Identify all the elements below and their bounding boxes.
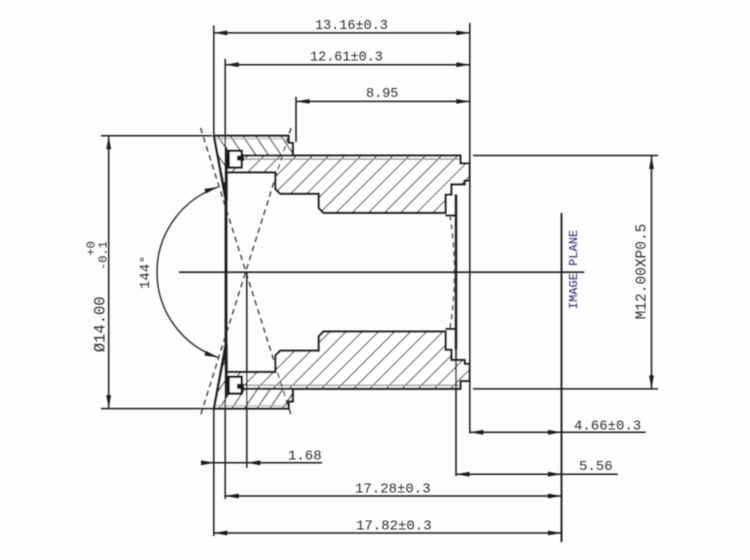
M12 thread root line lower [238,384,459,386]
image plane line [561,213,563,542]
thread relief notch lower [229,377,242,394]
svg-text:12.61±0.3: 12.61±0.3 [310,51,383,66]
lens barrel upper cross-section [227,156,470,213]
lock ring inner thin line lower [216,405,287,407]
svg-text:IMAGE PLANE: IMAGE PLANE [567,230,581,309]
extension line rear rim (top dims / 4.66) [469,23,471,164]
thread relief notch upper [229,151,242,168]
extension line dia14 top [101,135,212,137]
front element flat face [225,147,228,397]
extension line M12 bottom [473,388,658,390]
dim 1.68 [215,462,323,464]
front cone bevel upper [214,136,226,201]
lens barrel lower cross-section [227,332,470,389]
FOV ray ascending [201,128,291,415]
svg-text:144°: 144° [138,255,154,289]
svg-text:13.16±0.3: 13.16±0.3 [315,19,388,34]
svg-text:-0.1: -0.1 [97,241,111,270]
extension line entrance pupil (1.68) [246,272,248,468]
svg-text:Ø14.00: Ø14.00 [92,296,110,352]
dim 8.95 [296,100,470,102]
svg-text:8.95: 8.95 [366,87,398,102]
dim 4.66 [470,431,646,433]
extension line glass face (12.61 / 17.28) [224,59,226,147]
extension line M12 top [473,155,658,157]
dim 17.82 [214,532,562,534]
extension line rear element face (5.56) [455,350,457,477]
dim 13.16 [214,32,470,34]
rear element flat face [455,195,457,350]
label 144 deg [138,255,154,289]
lock ring inner thin line upper [216,138,287,140]
extension line ring face (8.95) [295,97,297,142]
extension line dia14 bottom [101,408,213,410]
dim 5.56 [456,473,618,475]
rear element curved surface (phantom) [450,216,455,329]
rear element bottom edge [446,328,457,330]
144 deg field-of-view arc [157,187,218,357]
svg-text:1.68: 1.68 [288,449,322,465]
svg-text:4.66±0.3: 4.66±0.3 [574,419,641,435]
svg-text:5.56: 5.56 [579,459,613,475]
front cone bevel lower [214,344,226,409]
svg-text:17.82±0.3: 17.82±0.3 [356,518,432,534]
dim M12.00XP0.5 [651,156,653,389]
svg-text:17.28±0.3: 17.28±0.3 [355,481,431,497]
dim 12.61 [225,64,470,66]
svg-text:M12.00XP0.5: M12.00XP0.5 [635,224,651,320]
optical axis center line [179,271,584,273]
lock ring upper cross-section [214,136,293,201]
M12 thread root line upper [238,158,459,160]
label image plane [567,230,581,309]
rear element top edge [446,215,457,217]
dim dia 14.00 [108,136,110,409]
FOV ray descending [201,128,291,415]
extension line front rim (13.16 / 17.82) [213,25,215,135]
lock ring lower cross-section [214,344,293,409]
dim 17.28 [225,495,561,497]
